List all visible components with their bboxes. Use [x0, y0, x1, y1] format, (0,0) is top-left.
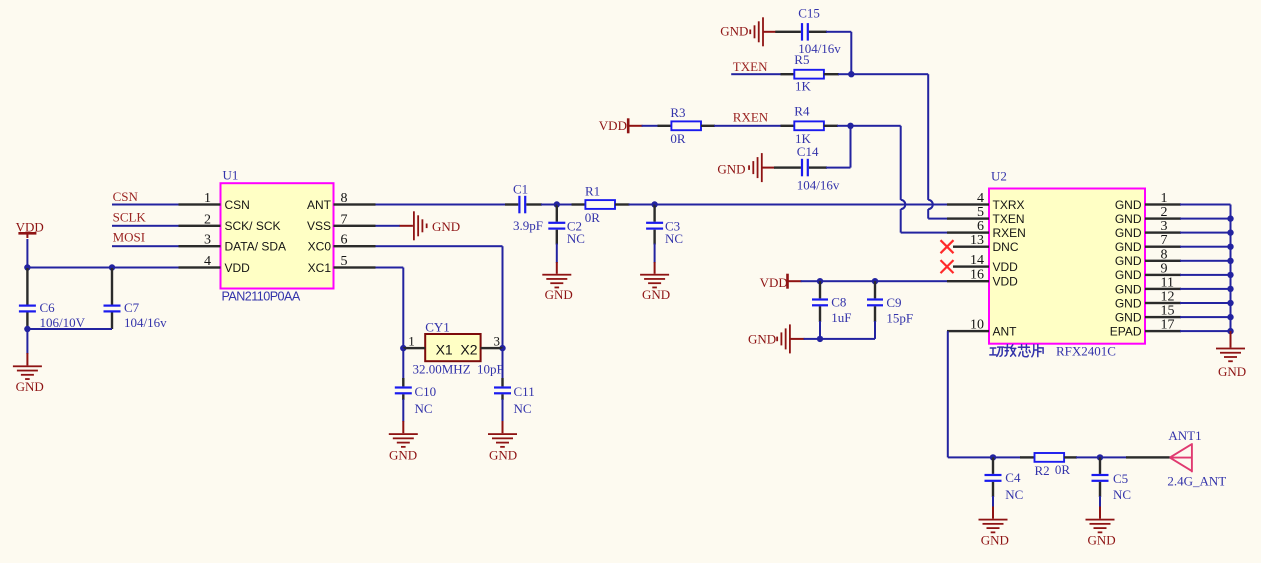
svg-text:R1: R1: [585, 184, 600, 199]
U2 pin 2 GND: [1145, 217, 1181, 219]
wire R4 to node: [824, 125, 838, 127]
svg-text:C14: C14: [797, 144, 819, 159]
wire VSS to ground: [376, 225, 401, 227]
svg-text:RXEN: RXEN: [733, 109, 769, 124]
no-connect X on pin 14: [941, 260, 954, 273]
ground GND (C2): [542, 274, 571, 276]
svg-text:0R: 0R: [670, 131, 686, 146]
svg-text:2.4G_ANT: 2.4G_ANT: [1167, 473, 1226, 488]
svg-text:C1: C1: [513, 182, 528, 197]
wire C3 node to U2 TXRX: [655, 204, 947, 206]
wire R2 to C5 node: [1064, 456, 1077, 458]
svg-text:GND: GND: [545, 287, 573, 302]
wire U2 pin 1 to GND bus: [1180, 204, 1231, 206]
svg-text:R4: R4: [794, 104, 810, 119]
svg-text:CSN: CSN: [113, 189, 139, 204]
node R4-C14 junction: [847, 123, 853, 129]
node R5-C15 junction: [848, 71, 854, 77]
svg-text:GND: GND: [720, 24, 748, 39]
U2 pin 7 GND: [1145, 246, 1181, 248]
wire U2 pin 2 to GND bus: [1180, 218, 1231, 220]
svg-text:TXRX: TXRX: [993, 198, 1025, 212]
capacitor C7: [111, 268, 113, 305]
wire VDD rail to U1 pin 4: [27, 267, 178, 269]
svg-text:17: 17: [1161, 318, 1175, 333]
svg-text:NC: NC: [1005, 487, 1023, 502]
svg-text:GND: GND: [16, 379, 44, 394]
svg-text:GND: GND: [642, 287, 670, 302]
svg-text:C6: C6: [40, 300, 56, 315]
svg-text:15: 15: [1161, 304, 1175, 319]
svg-text:6: 6: [977, 219, 984, 234]
U2 pin 3 GND: [1145, 231, 1181, 233]
node GND bus junction: [1227, 244, 1233, 250]
wire U1 ANT to C1: [376, 204, 507, 206]
resistor R5: [794, 70, 824, 79]
svg-text:CSN: CSN: [225, 198, 250, 212]
wire to R2: [1020, 456, 1035, 458]
svg-text:1uF: 1uF: [831, 310, 851, 325]
U2 part label (Chinese) 功放芯片: [990, 345, 1043, 357]
wire U2 pin 8 to GND bus: [1180, 260, 1231, 262]
svg-text:NC: NC: [514, 401, 532, 416]
svg-text:3.9pF: 3.9pF: [513, 218, 543, 233]
svg-text:C10: C10: [415, 384, 437, 399]
svg-text:32.00MHZ: 32.00MHZ: [413, 362, 471, 377]
wire node to R1: [557, 204, 573, 206]
U2 pin 14 VDD: [953, 265, 989, 267]
svg-text:NC: NC: [415, 401, 433, 416]
resistor R3: [671, 121, 701, 130]
svg-text:GND: GND: [1088, 533, 1116, 548]
U1 pin 2 SCK/SCK: [179, 225, 221, 227]
svg-text:NC: NC: [1113, 487, 1131, 502]
node C6 bottom junction: [24, 326, 30, 332]
wire VDD vertical to rail: [26, 239, 28, 268]
resistor R1: [585, 200, 615, 209]
no-connect X on pin 13: [941, 240, 954, 253]
svg-text:X2: X2: [460, 342, 477, 358]
node C7 junction: [109, 264, 115, 270]
svg-text:1: 1: [408, 333, 415, 348]
node C4 junction: [990, 454, 996, 460]
svg-text:12: 12: [1161, 290, 1175, 305]
svg-text:2: 2: [1161, 205, 1168, 220]
svg-text:C5: C5: [1113, 471, 1128, 486]
svg-text:0R: 0R: [585, 210, 601, 225]
svg-text:TXEN: TXEN: [993, 212, 1025, 226]
svg-text:SCLK: SCLK: [113, 209, 147, 224]
wire R3 to R4 (RXEN): [701, 125, 715, 127]
svg-text:10: 10: [970, 318, 984, 333]
wire U2 pin 15 to GND bus: [1180, 316, 1231, 318]
svg-text:VDD: VDD: [760, 275, 788, 290]
ground GND (U2 bus): [1216, 348, 1245, 350]
node GND bus junction: [1227, 215, 1233, 221]
svg-text:SCK/ SCK: SCK/ SCK: [225, 219, 281, 233]
svg-text:2: 2: [204, 212, 211, 227]
wire ground to C15: [763, 31, 776, 33]
svg-text:6: 6: [341, 233, 348, 248]
wire RXEN node to U2 RXEN (hops over TXRX wire): [851, 125, 901, 127]
wire GND bus vertical: [1230, 205, 1232, 332]
svg-text:104/16v: 104/16v: [124, 315, 167, 330]
svg-text:4: 4: [977, 191, 984, 206]
wire U2 pin 3 to GND bus: [1180, 232, 1231, 234]
capacitor C11: [502, 348, 504, 379]
svg-text:GND: GND: [1115, 296, 1142, 310]
svg-text:10pF: 10pF: [477, 362, 504, 377]
wire to ground (left): [26, 329, 28, 354]
capacitor C10: [402, 348, 404, 379]
wire U2 pin 11 to GND bus: [1180, 288, 1231, 290]
capacitor C5: [1099, 457, 1101, 474]
wire ground rail C8-C9: [790, 338, 805, 340]
wire SCLK: [112, 225, 179, 227]
svg-text:NC: NC: [567, 231, 585, 246]
svg-text:VDD: VDD: [993, 260, 1019, 274]
wire XC1 net: [376, 267, 404, 269]
U2 pin 8 GND: [1145, 260, 1181, 262]
wire R1 to node: [615, 203, 630, 205]
U1 pin 6 XC0: [334, 245, 376, 247]
node GND bus junction: [1227, 258, 1233, 264]
svg-text:5: 5: [341, 254, 348, 269]
U2 pin 6 RXEN: [947, 231, 989, 233]
svg-text:3: 3: [204, 233, 211, 248]
node VDD-C6 junction: [24, 264, 30, 270]
U2 pin 13 DNC: [953, 246, 989, 248]
U1 pin 8 ANT: [334, 203, 376, 205]
wire MOSI: [112, 245, 179, 247]
U1 pin 7 VSS: [334, 225, 376, 227]
svg-text:7: 7: [1161, 233, 1168, 248]
wire ground to C14: [762, 167, 775, 169]
wire R5 to node: [824, 73, 839, 75]
svg-text:ANT: ANT: [307, 198, 332, 212]
wire bus to ground: [1230, 331, 1232, 348]
U1 pin 1 CSN: [179, 203, 221, 205]
svg-text:XC0: XC0: [308, 240, 332, 254]
svg-text:GND: GND: [1115, 254, 1142, 268]
svg-text:GND: GND: [1115, 311, 1142, 325]
svg-text:R2: R2: [1035, 463, 1050, 478]
ground GND (C6/C7): [13, 365, 42, 367]
wire C15 to TXEN node: [809, 31, 827, 33]
svg-text:R5: R5: [794, 52, 809, 67]
svg-text:GND: GND: [389, 448, 417, 463]
node C8 bottom junction: [817, 336, 823, 342]
svg-text:1K: 1K: [795, 79, 812, 94]
svg-text:VDD: VDD: [993, 275, 1019, 289]
svg-text:DATA/ SDA: DATA/ SDA: [225, 240, 287, 254]
svg-text:104/16v: 104/16v: [797, 178, 840, 193]
svg-text:U2: U2: [991, 169, 1007, 184]
node C9 top junction: [872, 278, 878, 284]
wire TXEN to R5: [731, 73, 781, 75]
svg-text:C4: C4: [1005, 470, 1021, 485]
node GND bus junction: [1227, 286, 1233, 292]
CY1 pin 1: [403, 347, 425, 349]
capacitor C15: [801, 23, 803, 40]
svg-text:RXEN: RXEN: [993, 226, 1026, 240]
U1 pin 3 DATA/SDA: [179, 245, 221, 247]
svg-text:4: 4: [204, 254, 211, 269]
svg-text:GND: GND: [1115, 212, 1142, 226]
node R1-C3 junction: [651, 201, 657, 207]
svg-text:1: 1: [204, 191, 211, 206]
ground GND (C10): [389, 433, 418, 435]
CY1 pin 3: [481, 347, 503, 349]
wire U2 pin 12 to GND bus: [1180, 302, 1231, 304]
capacitor C3: [653, 205, 655, 222]
U2 pin 4 TXRX: [947, 203, 989, 205]
svg-text:GND: GND: [717, 162, 745, 177]
wire C14 up to RXEN node: [809, 166, 827, 168]
resistor R2: [1035, 453, 1065, 462]
svg-text:VDD: VDD: [225, 261, 251, 275]
U1 pin 4 VDD: [179, 266, 221, 268]
svg-text:GND: GND: [432, 219, 460, 234]
node GND bus junction: [1227, 229, 1233, 235]
svg-text:C8: C8: [831, 295, 846, 310]
capacitor C4: [992, 457, 994, 474]
svg-text:GND: GND: [489, 448, 517, 463]
svg-text:GND: GND: [1115, 268, 1142, 282]
ground GND (VSS): [413, 211, 415, 240]
node GND bus junction: [1227, 300, 1233, 306]
U2 pin 12 GND: [1145, 302, 1181, 304]
wire antenna pin: [1126, 456, 1170, 458]
U2 pin 10 ANT: [947, 330, 989, 332]
U2 pin 9 GND: [1145, 274, 1181, 276]
wire U2 pin 17 to GND bus: [1180, 330, 1231, 332]
svg-text:GND: GND: [981, 533, 1009, 548]
svg-text:VDD: VDD: [599, 118, 627, 133]
svg-text:MOSI: MOSI: [113, 230, 146, 245]
svg-text:CY1: CY1: [425, 319, 450, 334]
wire TXEN node to U2 TXEN (hops over TXRX wire): [851, 73, 928, 75]
crystal CY1 body: [425, 334, 480, 361]
svg-text:7: 7: [341, 212, 348, 227]
svg-text:C15: C15: [798, 5, 820, 20]
svg-text:9: 9: [1161, 261, 1168, 276]
node GND bus junction: [1227, 314, 1233, 320]
wire U2 pin 7 to GND bus: [1180, 246, 1231, 248]
svg-text:GND: GND: [1218, 364, 1246, 379]
ground GND (C4): [979, 519, 1008, 521]
svg-text:GND: GND: [1115, 198, 1142, 212]
node C8 top junction: [817, 278, 823, 284]
svg-text:VSS: VSS: [307, 219, 331, 233]
wire U2 pin 9 to GND bus: [1180, 274, 1231, 276]
svg-text:C11: C11: [514, 384, 535, 399]
svg-text:GND: GND: [1115, 282, 1142, 296]
node C5 junction: [1097, 454, 1103, 460]
svg-text:8: 8: [341, 191, 348, 206]
U1 pin 5 XC1: [334, 266, 376, 268]
capacitor C8: [819, 281, 821, 298]
capacitor C9: [874, 281, 876, 298]
svg-text:DNC: DNC: [993, 240, 1019, 254]
svg-text:C7: C7: [124, 300, 140, 315]
capacitor C2: [556, 205, 558, 222]
svg-text:PAN2110P0AA: PAN2110P0AA: [222, 290, 301, 304]
svg-text:0R: 0R: [1055, 462, 1071, 477]
U2 pin 1 GND: [1145, 203, 1181, 205]
svg-text:1: 1: [1161, 191, 1168, 206]
svg-text:14: 14: [970, 253, 984, 268]
svg-text:13: 13: [970, 233, 984, 248]
svg-text:5: 5: [977, 205, 984, 220]
svg-text:C9: C9: [886, 295, 901, 310]
svg-text:GND: GND: [1115, 226, 1142, 240]
node C1-C2-R1 junction: [554, 201, 560, 207]
op-amp U2 body: [989, 189, 1145, 344]
U2 pin 16 VDD: [947, 280, 989, 282]
svg-text:3: 3: [494, 333, 501, 348]
wire VDD to R3: [642, 125, 659, 127]
node CY1 pin1 junction: [400, 345, 406, 351]
svg-text:11: 11: [1161, 275, 1174, 290]
svg-text:GND: GND: [748, 332, 776, 347]
ground GND (C5): [1086, 519, 1115, 521]
node CY1 pin3 junction: [499, 345, 505, 351]
ground GND (C3): [640, 274, 669, 276]
U2 pin 11 GND: [1145, 288, 1181, 290]
svg-text:XC1: XC1: [308, 261, 332, 275]
wire C1 to node: [526, 203, 542, 205]
svg-text:TXEN: TXEN: [733, 59, 768, 74]
svg-text:EPAD: EPAD: [1110, 325, 1142, 339]
svg-text:ANT: ANT: [993, 325, 1018, 339]
resistor R4: [794, 121, 824, 130]
wire XC0 net: [376, 245, 503, 247]
svg-text:U1: U1: [223, 167, 239, 182]
U2 pin 5 TXEN: [947, 217, 989, 219]
capacitor C6: [26, 268, 28, 305]
U2 pin 15 GND: [1145, 316, 1181, 318]
svg-text:R3: R3: [670, 105, 685, 120]
svg-text:3: 3: [1161, 219, 1168, 234]
svg-text:16: 16: [970, 268, 984, 283]
svg-text:RFX2401C: RFX2401C: [1056, 344, 1116, 359]
svg-text:X1: X1: [436, 342, 453, 358]
node GND bus junction: [1227, 272, 1233, 278]
node GND bus junction: [1227, 328, 1233, 334]
svg-text:ANT1: ANT1: [1168, 428, 1201, 443]
svg-text:8: 8: [1161, 247, 1168, 262]
wire CSN: [112, 204, 179, 206]
antenna ANT1: [1170, 443, 1192, 472]
op-amp U1 body: [221, 183, 334, 288]
svg-text:NC: NC: [665, 231, 683, 246]
svg-text:106/10V: 106/10V: [40, 315, 86, 330]
svg-text:GND: GND: [1115, 240, 1142, 254]
capacitor C14: [801, 159, 803, 177]
wire VDD to U2 pin 16: [801, 280, 947, 282]
wire U2 ANT down to antenna row: [947, 331, 949, 457]
ground GND (C11): [488, 433, 517, 435]
capacitor C1: [518, 196, 520, 214]
U2 pin 17 EPAD: [1145, 330, 1181, 332]
svg-text:15pF: 15pF: [886, 311, 913, 326]
wire C6-C7 bottom: [27, 328, 112, 330]
